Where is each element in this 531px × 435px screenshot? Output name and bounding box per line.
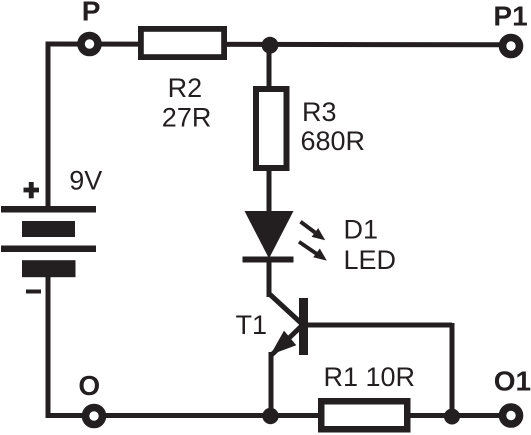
svg-text:LED: LED: [344, 245, 397, 275]
node junction dot right (base branch/rail): [444, 409, 460, 425]
wire T1 base horizontal: [308, 323, 452, 328]
terminal P1 ring: [503, 38, 520, 55]
wire left vertical from battery - to bottom rail: [46, 276, 51, 418]
terminal O1 ring: [503, 407, 520, 424]
svg-text:P1: P1: [493, 0, 527, 31]
transistor T1 base bar: [299, 298, 308, 355]
terminal O ring: [86, 408, 103, 425]
wire junction to R3 top: [267, 45, 272, 90]
svg-text:D1: D1: [344, 214, 379, 244]
battery B1 plate short thick (bottom): [22, 260, 76, 277]
battery B1 plate long (third): [1, 246, 96, 253]
svg-text:R3: R3: [302, 97, 337, 127]
svg-text:R1 10R: R1 10R: [324, 362, 416, 392]
svg-text:680R: 680R: [301, 126, 366, 156]
svg-text:R2: R2: [168, 73, 203, 103]
transistor T1 collector diagonal: [270, 295, 301, 324]
terminal P ring: [81, 36, 98, 53]
wire R3 bottom to LED anode: [267, 167, 272, 214]
resistor R1 body: [318, 398, 411, 433]
wire T1 emitter to bottom rail: [269, 352, 274, 416]
diode D1 cathode bar: [243, 257, 294, 263]
battery B1 plate + long (top): [1, 206, 96, 213]
resistor R3 body: [253, 86, 290, 171]
svg-text:P: P: [82, 0, 101, 26]
diode D1 LED triangle (anode): [245, 211, 294, 259]
wire top horizontal rail P to P1: [46, 42, 501, 48]
wire base branch vertical down to rail: [450, 323, 455, 416]
transistor T1 emitter arrowhead: [271, 331, 297, 355]
wire LED cathode to T1 collector: [267, 260, 272, 297]
battery plus sign: [24, 182, 40, 198]
svg-text:T1: T1: [236, 310, 268, 340]
svg-text:O1: O1: [494, 366, 531, 397]
LED emission arrow 1: [301, 222, 326, 241]
svg-text:27R: 27R: [162, 103, 212, 133]
wire left vertical from top rail to battery +: [46, 42, 51, 208]
wire bottom horizontal rail O to O1: [46, 413, 501, 418]
LED emission arrow 2: [299, 242, 327, 261]
svg-text:9V: 9V: [69, 165, 102, 195]
node junction dot top (R2/R3/P1): [262, 37, 279, 54]
node junction dot bottom (emitter/rail): [262, 408, 278, 424]
svg-text:O: O: [78, 370, 100, 401]
battery B1 plate short thick (second): [22, 221, 75, 237]
transistor T1 emitter diagonal: [272, 327, 301, 355]
battery minus sign: [26, 290, 41, 294]
resistor R2 body: [138, 26, 227, 60]
